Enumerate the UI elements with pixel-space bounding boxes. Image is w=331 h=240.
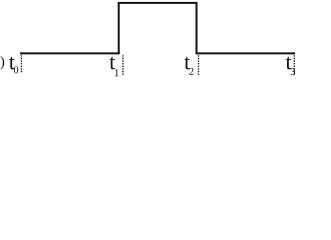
wire: low level segment t0-t1 [20,52,120,54]
label t2 [184,57,193,75]
label t3 [286,57,295,75]
label: figure-label closing parenthesis [0,56,4,69]
node t1: dotted time marker [122,55,124,75]
wire: low level segment t2-t3 [196,52,296,54]
node t0: dotted time marker [20,55,22,72]
label t0 [9,57,18,74]
node t3: dotted time marker [293,55,295,76]
node t2: dotted time marker [198,55,200,75]
wire: high level segment t1-t2 [118,2,198,4]
wire: rising edge at t1 [118,3,120,54]
label t1 [109,57,118,76]
wire: falling edge at t2 [196,3,198,54]
